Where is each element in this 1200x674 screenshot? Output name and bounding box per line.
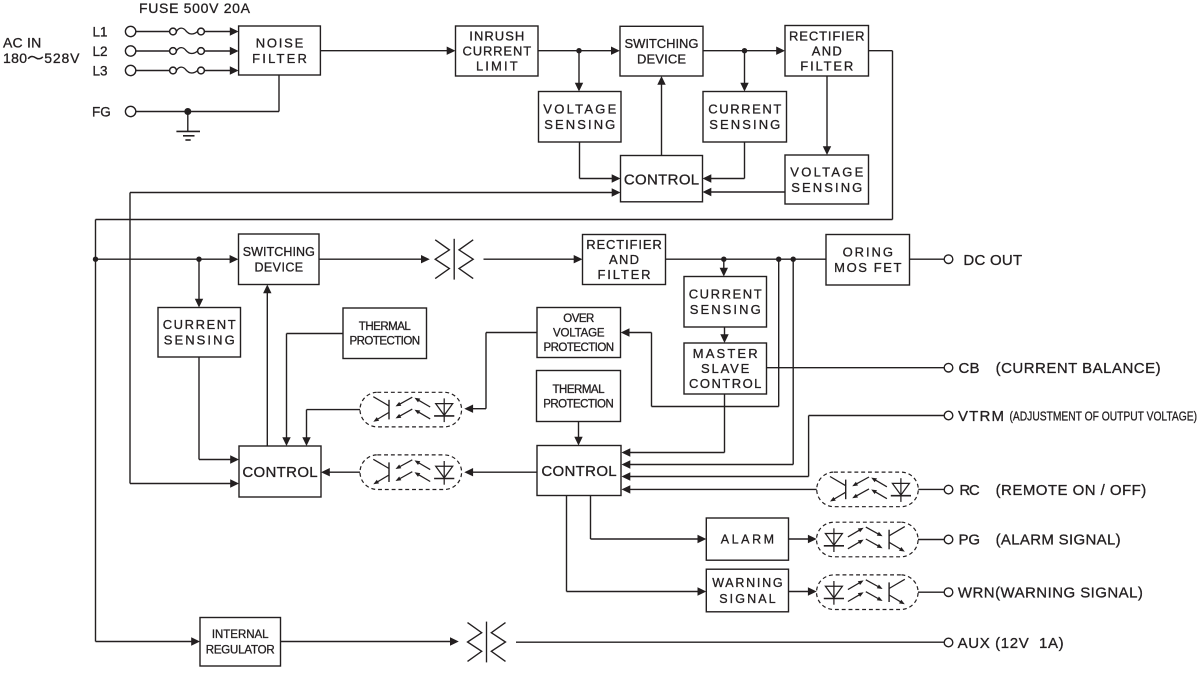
svg-text:LIMIT: LIMIT xyxy=(476,59,518,74)
block ALARM xyxy=(706,518,788,560)
svg-text:RECTIFIER: RECTIFIER xyxy=(586,237,662,252)
svg-text:DEVICE: DEVICE xyxy=(254,260,303,274)
wire voltage sensing to control xyxy=(580,142,621,183)
wire master slave control to control B xyxy=(622,394,725,457)
wire internal regulator to transformer T2 xyxy=(281,637,459,645)
wire junction A to voltage sensing xyxy=(575,51,583,92)
wire control to switching device xyxy=(657,76,665,156)
svg-text:WRN(WARNING SIGNAL): WRN(WARNING SIGNAL) xyxy=(958,584,1143,601)
svg-text:CONTROL: CONTROL xyxy=(541,463,616,480)
node AC IN labels xyxy=(3,35,80,66)
fuse F1 xyxy=(170,28,205,35)
svg-text:MASTER: MASTER xyxy=(693,346,758,361)
wire optocoupler PC4 to PG xyxy=(918,539,944,541)
svg-text:DEVICE: DEVICE xyxy=(637,52,686,67)
svg-text:RC: RC xyxy=(959,482,979,499)
svg-text:CONTROL: CONTROL xyxy=(242,464,317,481)
svg-text:AND: AND xyxy=(812,43,842,58)
wire VTRM to control B xyxy=(622,416,945,481)
wire F1 to noise filter xyxy=(204,27,238,35)
wire optocoupler PC2 to control A xyxy=(321,468,360,476)
block THERMAL PROTECTION (right) xyxy=(537,371,621,422)
svg-text:WARNING: WARNING xyxy=(712,576,782,590)
svg-text:ORING: ORING xyxy=(843,245,893,260)
svg-text:THERMAL: THERMAL xyxy=(553,384,606,396)
block INRUSH CURRENT LIMIT xyxy=(456,26,539,76)
svg-text:528V: 528V xyxy=(44,50,80,66)
wire alarm to optocoupler PC4 xyxy=(789,535,817,543)
wire control B to alarm xyxy=(591,496,707,544)
wire current sensing 3 to master slave control xyxy=(720,327,728,343)
wire L3 to fuse F3 xyxy=(136,70,170,72)
wire oring mosfet to DC OUT xyxy=(910,258,945,260)
svg-text:FILTER: FILTER xyxy=(800,58,853,73)
svg-text:AC IN: AC IN xyxy=(3,35,41,51)
label FUSE 500V 20A xyxy=(139,0,251,16)
svg-text:CONTROL: CONTROL xyxy=(689,376,761,391)
wire optocoupler PC3 to control B xyxy=(622,485,817,493)
svg-text:AUX (12V 1A): AUX (12V 1A) xyxy=(958,635,1064,652)
svg-text:CONTROL: CONTROL xyxy=(624,171,699,188)
wire control B to warning signal xyxy=(567,496,707,596)
wire dc output rail xyxy=(666,258,827,260)
wire switching device 2 to transformer T1 xyxy=(319,255,430,263)
svg-text:CURRENT: CURRENT xyxy=(708,102,781,117)
svg-text:SENSING: SENSING xyxy=(709,117,780,132)
wire thermal protection to control A xyxy=(282,334,343,447)
svg-text:INRUSH: INRUSH xyxy=(469,29,524,44)
svg-text:FG: FG xyxy=(92,105,111,120)
block VOLTAGE SENSING (primary output) xyxy=(785,155,869,204)
svg-text:CURRENT: CURRENT xyxy=(163,317,236,332)
wire noise filter to inrush current limit xyxy=(320,47,455,55)
block NOISE FILTER xyxy=(239,26,321,75)
svg-text:L3: L3 xyxy=(93,64,108,79)
wire junction E to current sensing 3 xyxy=(720,259,728,276)
optocoupler PC1 xyxy=(360,392,462,427)
wire junction F to over voltage protection xyxy=(621,259,779,406)
block INTERNAL REGULATOR xyxy=(200,618,281,667)
block MASTER SLAVE CONTROL xyxy=(684,343,767,394)
terminal CB xyxy=(944,360,1160,377)
svg-text:180: 180 xyxy=(3,50,27,66)
transformer T1 xyxy=(435,239,473,280)
wire control B to optocoupler PC2 xyxy=(464,468,537,476)
svg-text:DC OUT: DC OUT xyxy=(963,252,1022,269)
wire FG to noise filter xyxy=(136,75,279,112)
wire optocoupler PC5 to WRN xyxy=(918,591,944,593)
junction F xyxy=(776,257,781,262)
fuse F3 xyxy=(170,67,205,74)
svg-text:(REMOTE ON / OFF): (REMOTE ON / OFF) xyxy=(996,482,1147,499)
svg-text:L2: L2 xyxy=(93,44,108,59)
transformer T2 xyxy=(468,622,506,663)
block RECTIFIER AND FILTER (secondary) xyxy=(583,235,666,285)
block THERMAL PROTECTION (left) xyxy=(343,308,427,359)
svg-text:SWITCHING: SWITCHING xyxy=(625,36,699,51)
terminal FG xyxy=(92,105,136,120)
svg-text:SENSING: SENSING xyxy=(791,180,862,195)
svg-text:FILTER: FILTER xyxy=(598,267,651,282)
wire L1 to fuse F1 xyxy=(136,31,170,33)
terminal VTRM xyxy=(944,408,1197,425)
svg-text:SLAVE: SLAVE xyxy=(701,361,750,376)
svg-text:PROTECTION: PROTECTION xyxy=(543,398,614,410)
block SWITCHING DEVICE (secondary) xyxy=(239,234,320,285)
svg-text:VTRM: VTRM xyxy=(958,408,1004,425)
svg-text:PROTECTION: PROTECTION xyxy=(544,342,615,354)
block CONTROL (secondary A) xyxy=(239,446,321,497)
terminal PG xyxy=(944,532,1120,549)
junction B xyxy=(742,48,747,53)
block RECTIFIER AND FILTER (primary) xyxy=(785,26,869,77)
optocoupler PC4 (alarm) xyxy=(817,522,919,557)
block CONTROL (primary) xyxy=(621,156,703,202)
wire F2 to noise filter xyxy=(204,47,238,55)
svg-text:(ALARM SIGNAL): (ALARM SIGNAL) xyxy=(996,532,1121,549)
svg-text:INTERNAL: INTERNAL xyxy=(212,629,269,641)
wire rectifier to output voltage sensing xyxy=(823,76,831,155)
block CONTROL (secondary B) xyxy=(537,446,621,496)
junction G xyxy=(791,257,796,262)
svg-text:SWITCHING: SWITCHING xyxy=(243,245,315,259)
terminal RC xyxy=(944,482,1146,499)
block SWITCHING DEVICE (primary) xyxy=(620,26,703,76)
wire dc bus to switching device 2 xyxy=(96,255,239,263)
terminal L2 xyxy=(93,44,136,59)
block CURRENT SENSING (output) xyxy=(684,277,767,328)
wire F3 to noise filter xyxy=(204,66,238,74)
svg-text:THERMAL: THERMAL xyxy=(359,321,412,333)
ground xyxy=(176,112,200,141)
optocoupler PC5 (warning) xyxy=(817,575,919,610)
svg-text:OVER: OVER xyxy=(563,313,594,325)
svg-text:L1: L1 xyxy=(93,25,108,40)
wire inrush current limit to switching device xyxy=(538,47,620,55)
junction A xyxy=(576,48,581,53)
junction C on dc bus xyxy=(93,257,98,262)
block VOLTAGE SENSING (input) xyxy=(539,92,622,143)
wire master slave control to CB xyxy=(767,367,945,369)
wire output voltage sensing to control xyxy=(703,188,786,196)
block CURRENT SENSING (input) xyxy=(703,92,787,143)
svg-text:FUSE 500V 20A: FUSE 500V 20A xyxy=(139,0,251,16)
svg-text:SENSING: SENSING xyxy=(164,333,235,348)
wire transformer T2 to AUX xyxy=(516,641,944,643)
wire control A to switching device 2 xyxy=(263,285,271,447)
svg-text:PG: PG xyxy=(959,532,981,549)
svg-text:SENSING: SENSING xyxy=(544,117,615,132)
wire warning signal to optocoupler PC5 xyxy=(789,587,817,595)
junction E xyxy=(721,257,726,262)
svg-text:RECTIFIER: RECTIFIER xyxy=(789,28,865,43)
svg-text:REGULATOR: REGULATOR xyxy=(206,645,275,657)
svg-text:(CURRENT BALANCE): (CURRENT BALANCE) xyxy=(996,360,1161,377)
terminal L1 xyxy=(93,25,136,40)
terminal AUX xyxy=(944,635,1063,652)
svg-text:CURRENT: CURRENT xyxy=(462,44,531,59)
wire switching device to rectifier and filter xyxy=(703,47,785,55)
block WARNING SIGNAL xyxy=(706,569,788,612)
svg-text:MOS FET: MOS FET xyxy=(834,260,901,275)
wire junction G to control B xyxy=(622,259,794,469)
svg-text:NOISE: NOISE xyxy=(256,36,304,51)
wire RC to optocoupler PC3 xyxy=(918,488,944,490)
wire thermal protection to control B xyxy=(574,422,582,446)
wire junction B to current sensing xyxy=(740,51,748,92)
svg-text:SENSING: SENSING xyxy=(690,302,761,317)
svg-text:AND: AND xyxy=(609,252,639,267)
wire secondary feedback to primary control xyxy=(130,188,621,487)
optocoupler PC3 (remote) xyxy=(817,472,919,507)
svg-text:CB: CB xyxy=(959,360,980,377)
wire current sensing 2 to control A xyxy=(199,357,239,464)
wire primary dc bus xyxy=(96,51,893,646)
svg-text:PROTECTION: PROTECTION xyxy=(350,336,421,348)
terminal WRN xyxy=(944,584,1143,601)
optocoupler PC2 xyxy=(360,455,462,490)
svg-text:ALARM: ALARM xyxy=(721,533,774,547)
block OVER VOLTAGE PROTECTION xyxy=(537,308,621,358)
junction D xyxy=(196,257,201,262)
wire transformer T1 to rectifier 2 xyxy=(484,255,583,263)
fuse F2 xyxy=(170,48,205,55)
terminal L3 xyxy=(93,64,136,79)
wire L2 to fuse F2 xyxy=(136,50,170,52)
block ORING MOS FET xyxy=(826,235,910,286)
block CURRENT SENSING (secondary) xyxy=(158,308,241,358)
wire optocoupler PC1 to control A xyxy=(302,410,360,446)
svg-text:CURRENT: CURRENT xyxy=(689,287,762,302)
junction on FG wire xyxy=(184,108,191,115)
wire over voltage protection to optocoupler PC1 xyxy=(464,333,537,413)
wire current sensing to control xyxy=(703,142,745,183)
wire junction D to current sensing 2 xyxy=(195,259,203,307)
terminal DC OUT xyxy=(944,252,1022,269)
svg-text:(ADJUSTMENT OF OUTPUT VOLTAGE): (ADJUSTMENT OF OUTPUT VOLTAGE) xyxy=(1010,408,1198,423)
svg-text:VOLTAGE: VOLTAGE xyxy=(553,328,605,340)
